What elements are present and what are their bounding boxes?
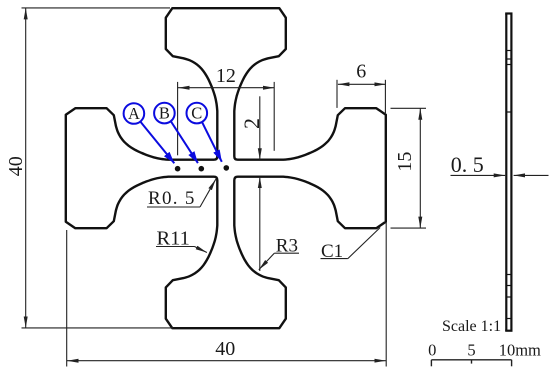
dimension 6 (cap depth, top right) (337, 80, 386, 113)
svg-text:R3: R3 (276, 236, 298, 257)
dimension 40 (overall height, left) (22, 8, 174, 328)
point label C: blue circle with leader arrow (187, 103, 222, 162)
svg-text:15: 15 (394, 152, 416, 172)
scale bar (431, 360, 511, 367)
svg-text:R11: R11 (157, 228, 190, 250)
svg-text:0: 0 (428, 341, 436, 360)
svg-text:A: A (128, 104, 140, 123)
dimension 15 (arm cap width, right) (391, 108, 427, 228)
dimension 12 (gauge span, top) (178, 82, 275, 155)
measurement point A dot (175, 166, 181, 172)
measurement point C dot (224, 165, 230, 171)
svg-text:6: 6 (356, 60, 366, 82)
cruciform specimen outline (66, 8, 386, 328)
measurement point B dot (199, 166, 205, 172)
svg-text:40: 40 (5, 156, 27, 176)
svg-text:12: 12 (216, 65, 236, 87)
dimension 2 (neck width) (259, 96, 261, 271)
svg-text:2: 2 (239, 118, 264, 129)
point label B: blue circle with leader arrow (154, 103, 198, 163)
dimension 0.5 thickness (451, 174, 549, 176)
svg-text:10mm: 10mm (499, 341, 541, 360)
svg-text:B: B (159, 104, 170, 123)
svg-text:0. 5: 0. 5 (451, 152, 484, 177)
svg-text:Scale 1:1: Scale 1:1 (442, 318, 501, 335)
svg-text:R0. 5: R0. 5 (148, 188, 196, 209)
side view: 0.5 mm thin strip profile (505, 14, 512, 331)
svg-text:5: 5 (467, 341, 475, 360)
point label A: blue circle with leader arrow (124, 103, 175, 163)
svg-text:C: C (191, 104, 202, 123)
label R3 with leader (259, 253, 299, 270)
label R11 with leader (156, 247, 207, 253)
label R0.5 with leader (147, 179, 216, 207)
svg-text:40: 40 (215, 338, 235, 360)
svg-text:C1: C1 (321, 241, 343, 262)
dimension 40 (overall width, bottom) (67, 222, 387, 367)
label C1 with leader (321, 228, 381, 259)
